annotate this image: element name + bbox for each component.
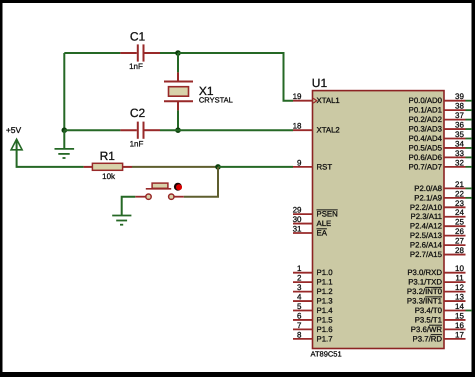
svg-text:P1.7: P1.7 xyxy=(317,334,333,343)
svg-text:EA: EA xyxy=(317,229,328,238)
svg-text:18: 18 xyxy=(293,122,302,131)
svg-text:P2.3/A11: P2.3/A11 xyxy=(411,212,443,221)
svg-text:1: 1 xyxy=(297,264,302,273)
svg-text:P2.2/A10: P2.2/A10 xyxy=(410,203,443,212)
svg-text:12: 12 xyxy=(455,283,464,292)
pin 38 P0.1/AD1 xyxy=(409,102,466,115)
wire at pin 14 xyxy=(466,309,473,311)
svg-text:23: 23 xyxy=(455,199,464,208)
svg-text:1nF: 1nF xyxy=(129,62,143,71)
svg-text:P0.2/AD2: P0.2/AD2 xyxy=(409,115,442,124)
wire at pin 22 xyxy=(466,197,473,199)
wire at pin 32 xyxy=(466,166,473,168)
svg-text:9: 9 xyxy=(297,158,302,167)
svg-text:U1: U1 xyxy=(312,76,328,90)
svg-text:AT89C51: AT89C51 xyxy=(311,350,342,359)
svg-text:21: 21 xyxy=(455,180,464,189)
pin 24 P2.3/A11 xyxy=(411,208,466,221)
pin 17 P3.7/RD xyxy=(413,330,466,343)
svg-text:10: 10 xyxy=(455,264,464,273)
wire C2 to XTAL2 pin xyxy=(160,129,178,131)
svg-text:P0.3/AD3: P0.3/AD3 xyxy=(409,125,442,134)
wire at pin 34 xyxy=(466,147,473,149)
pin 35 P0.4/AD4 xyxy=(409,130,466,143)
svg-text:P2.7/A15: P2.7/A15 xyxy=(410,250,443,259)
svg-text:2: 2 xyxy=(297,274,302,283)
svg-text:RST: RST xyxy=(317,162,333,171)
svg-text:14: 14 xyxy=(455,302,464,311)
svg-text:30: 30 xyxy=(293,215,302,224)
svg-text:P1.1: P1.1 xyxy=(317,278,333,287)
wire at pin 38 xyxy=(466,109,473,111)
pin 2 P1.1 xyxy=(293,274,333,287)
svg-text:XTAL2: XTAL2 xyxy=(317,126,340,135)
svg-text:29: 29 xyxy=(293,206,302,215)
junction C2 / crystal bottom xyxy=(175,127,181,133)
wire crystal junction to XTAL2 pin xyxy=(178,129,293,131)
svg-text:6: 6 xyxy=(297,311,302,320)
svg-text:19: 19 xyxy=(293,92,302,101)
ground (button) xyxy=(112,216,131,225)
pin 30 ALE xyxy=(293,215,332,228)
svg-text:13: 13 xyxy=(455,293,464,302)
svg-text:22: 22 xyxy=(455,189,464,198)
pin 7 P1.6 xyxy=(293,321,333,334)
pin 14 P3.4/T0 xyxy=(415,302,466,315)
pin 22 P2.1/A9 xyxy=(414,189,465,202)
pin 31 EA xyxy=(293,225,328,238)
svg-text:11: 11 xyxy=(455,274,464,283)
pin 8 P1.7 xyxy=(293,330,333,343)
svg-text:P3.6/WR: P3.6/WR xyxy=(411,325,443,334)
wire junction to RST pin xyxy=(218,166,293,168)
pin 3 P1.2 xyxy=(293,283,333,296)
svg-text:CRYSTAL: CRYSTAL xyxy=(199,96,233,105)
pin 27 P2.6/A14 xyxy=(410,237,466,250)
svg-text:PSEN: PSEN xyxy=(317,210,338,219)
wire button left contact to ground xyxy=(122,197,136,216)
pin 32 P0.7/AD7 xyxy=(409,158,466,171)
pin 37 P0.2/AD2 xyxy=(409,111,466,124)
svg-text:P3.4/T0: P3.4/T0 xyxy=(415,306,443,315)
svg-text:15: 15 xyxy=(455,311,464,320)
svg-text:P0.4/AD4: P0.4/AD4 xyxy=(409,134,443,143)
capacitor C1 xyxy=(120,30,160,71)
svg-text:P1.6: P1.6 xyxy=(317,325,333,334)
svg-text:P3.3/INT1: P3.3/INT1 xyxy=(407,297,442,306)
pin 21 P2.0/A8 xyxy=(414,180,465,193)
pin 34 P0.5/AD5 xyxy=(409,139,466,152)
pin 16 P3.6/WR xyxy=(411,321,466,334)
svg-text:P2.6/A14: P2.6/A14 xyxy=(410,241,443,250)
pin 39 P0.0/AD0 xyxy=(409,92,466,105)
wire bus to C1 xyxy=(64,52,120,54)
svg-text:C1: C1 xyxy=(130,30,146,44)
wire +5V to R1 xyxy=(17,141,84,167)
svg-text:P1.4: P1.4 xyxy=(317,306,334,315)
wire bus to C2 xyxy=(64,129,120,131)
op IC U1 AT89C51 xyxy=(311,76,445,359)
svg-text:17: 17 xyxy=(455,330,464,339)
svg-text:16: 16 xyxy=(455,321,464,330)
wire crystal junction to XTAL1 pin xyxy=(178,53,293,101)
wire at pin 37 xyxy=(466,119,473,121)
svg-text:P2.5/A13: P2.5/A13 xyxy=(410,231,442,240)
svg-text:P0.1/AD1: P0.1/AD1 xyxy=(409,106,442,115)
svg-text:P1.5: P1.5 xyxy=(317,315,334,324)
svg-text:ALE: ALE xyxy=(317,219,332,228)
wire at pin 33 xyxy=(466,156,473,158)
pin 23 P2.2/A10 xyxy=(410,199,466,212)
push button (reset) xyxy=(135,183,183,200)
svg-text:XTAL1: XTAL1 xyxy=(317,96,340,105)
svg-text:C2: C2 xyxy=(130,106,146,120)
svg-text:8: 8 xyxy=(297,330,302,339)
svg-text:P0.6/AD6: P0.6/AD6 xyxy=(409,153,442,162)
svg-text:P3.0/RXD: P3.0/RXD xyxy=(407,268,442,277)
pin 10 P3.0/RXD xyxy=(407,264,465,277)
pin 13 P3.3/INT1 xyxy=(407,293,466,306)
pin 11 P3.1/TXD xyxy=(408,274,465,287)
svg-text:39: 39 xyxy=(455,92,464,101)
svg-text:P0.7/AD7: P0.7/AD7 xyxy=(409,162,442,171)
svg-text:25: 25 xyxy=(455,218,464,227)
junction reset node xyxy=(215,164,221,170)
svg-text:P0.0/AD0: P0.0/AD0 xyxy=(409,96,443,105)
svg-text:P3.1/TXD: P3.1/TXD xyxy=(408,278,442,287)
svg-text:P3.7/RD: P3.7/RD xyxy=(413,334,443,343)
pin 9 RST xyxy=(293,158,332,171)
crystal X1 xyxy=(164,53,233,130)
junction C1 / crystal top xyxy=(175,50,181,56)
wire button to reset junction (olive) xyxy=(184,167,218,197)
svg-text:26: 26 xyxy=(455,227,464,236)
svg-text:24: 24 xyxy=(455,208,464,217)
pin 33 P0.6/AD6 xyxy=(409,149,466,162)
wire R1 to reset junction (olive) xyxy=(132,166,218,168)
svg-text:10k: 10k xyxy=(102,172,116,181)
svg-text:+5V: +5V xyxy=(6,125,22,135)
pin 18 XTAL2 xyxy=(293,122,340,135)
svg-text:4: 4 xyxy=(297,293,302,302)
resistor R1 xyxy=(84,149,132,181)
junction left bus / C2 / ground xyxy=(62,127,68,133)
ground (left) xyxy=(55,130,75,158)
capacitor C2 xyxy=(120,106,160,148)
svg-text:28: 28 xyxy=(455,246,464,255)
svg-text:1nF: 1nF xyxy=(130,139,144,148)
pin 4 P1.3 xyxy=(293,293,333,306)
wire at pin 36 xyxy=(466,128,473,130)
pin 25 P2.4/A12 xyxy=(410,218,466,231)
svg-text:P1.2: P1.2 xyxy=(317,287,333,296)
svg-text:32: 32 xyxy=(455,158,464,167)
wire at pin 39 xyxy=(466,100,473,102)
wire C1 to crystal junction xyxy=(160,52,178,54)
svg-text:31: 31 xyxy=(293,225,302,234)
pin 1 P1.0 xyxy=(293,264,333,277)
svg-text:34: 34 xyxy=(455,139,464,148)
svg-text:P2.0/A8: P2.0/A8 xyxy=(414,184,442,193)
pin 36 P0.3/AD3 xyxy=(409,121,466,134)
svg-text:33: 33 xyxy=(455,149,464,158)
svg-text:P3.2/INT0: P3.2/INT0 xyxy=(407,287,443,296)
wire at pin 35 xyxy=(466,138,473,140)
svg-text:35: 35 xyxy=(455,130,464,139)
pin 29 PSEN xyxy=(293,206,338,219)
svg-text:P2.1/A9: P2.1/A9 xyxy=(414,193,442,202)
pin 12 P3.2/INT0 xyxy=(407,283,466,296)
svg-text:37: 37 xyxy=(455,111,464,120)
power +5V xyxy=(6,125,22,150)
pin 15 P3.5/T1 xyxy=(415,311,466,324)
pin 19 XTAL1 xyxy=(293,92,340,105)
svg-text:36: 36 xyxy=(455,121,464,130)
pin 5 P1.4 xyxy=(293,302,333,315)
svg-text:P0.5/AD5: P0.5/AD5 xyxy=(409,143,443,152)
pin 26 P2.5/A13 xyxy=(410,227,466,240)
svg-text:P2.4/A12: P2.4/A12 xyxy=(410,222,442,231)
wire at pin 21 xyxy=(466,187,473,189)
pin 28 P2.7/A15 xyxy=(410,246,466,259)
svg-text:P1.0: P1.0 xyxy=(317,268,334,277)
svg-text:R1: R1 xyxy=(100,149,116,163)
svg-text:5: 5 xyxy=(297,302,302,311)
svg-text:38: 38 xyxy=(455,102,464,111)
svg-text:27: 27 xyxy=(455,237,464,246)
svg-text:3: 3 xyxy=(297,283,302,292)
svg-text:P3.5/T1: P3.5/T1 xyxy=(415,315,442,324)
left vertical bus wire xyxy=(63,53,65,130)
svg-text:P1.3: P1.3 xyxy=(317,297,333,306)
pin 6 P1.5 xyxy=(293,311,333,324)
svg-text:7: 7 xyxy=(297,321,302,330)
